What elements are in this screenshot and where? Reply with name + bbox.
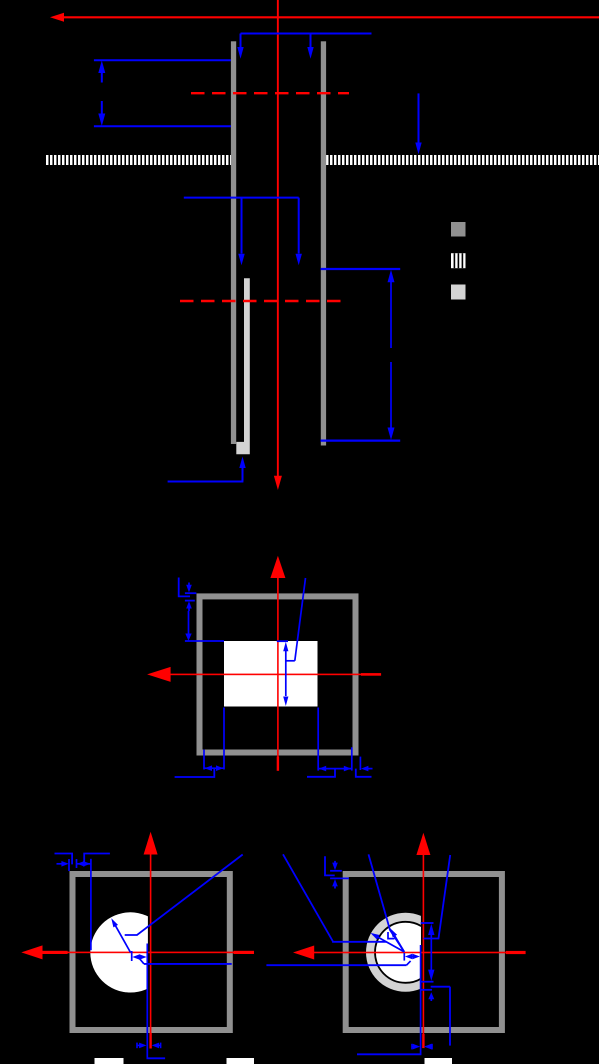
radius arrow to inner rim xyxy=(392,931,405,952)
vertical centerline (red) with top arrow xyxy=(144,832,158,855)
dim line tube top diameter xyxy=(241,33,372,35)
vertical centerline (red) xyxy=(277,0,279,476)
wall thickness dim top-left: outer tick xyxy=(185,592,196,594)
top-left: outer edge tick xyxy=(68,859,70,871)
up arrow below xyxy=(186,601,192,608)
dim inner-top to window-top xyxy=(188,611,190,636)
top-left wall thickness: outer tick xyxy=(330,870,342,872)
hook leader 2 xyxy=(84,854,110,865)
circle left edge tick (long) xyxy=(90,859,92,950)
extension from square inner-right edge xyxy=(351,747,353,770)
housing square (gray) xyxy=(346,874,502,1030)
down arrow above xyxy=(334,861,336,864)
bottom tick xyxy=(421,981,434,983)
roof pointer arrow xyxy=(418,93,420,143)
leader down-right xyxy=(356,769,372,777)
vertical dimension between levels: bottom arrow xyxy=(101,101,103,116)
horizontal centerline (red) with left arrow xyxy=(293,946,314,960)
leader from label to radius line xyxy=(125,855,243,936)
caption swatch white 1 xyxy=(95,1058,124,1064)
center tick xyxy=(403,953,405,961)
red dashed level line (lower) xyxy=(180,300,345,302)
hook at bottom to label (leftwards) xyxy=(357,1053,421,1055)
legend swatch gray xyxy=(451,222,466,237)
right depth dim: bottom extension line xyxy=(321,440,401,442)
L-leader down to label xyxy=(449,987,451,1046)
leader from height dim to label xyxy=(286,660,295,662)
right depth dim: top extension line xyxy=(321,268,401,270)
vertical dimension between levels: top arrow xyxy=(98,61,105,74)
right-angle mark xyxy=(388,932,395,939)
centerline bottom arrowhead xyxy=(274,476,282,490)
stem+arrow at x=298.7 xyxy=(298,198,300,254)
bottom-left dimension: extension from square inner edge xyxy=(203,750,205,770)
sensor tip pointer arrow xyxy=(239,457,245,469)
inner edge tick xyxy=(76,859,78,868)
bottom-right dimension: extension from window right edge xyxy=(317,708,319,771)
center tick xyxy=(131,951,133,961)
centerline thick end (bottom) xyxy=(277,757,279,771)
measuring plane line (blue vertical at flat edge) xyxy=(420,945,422,1055)
lower level line (left) xyxy=(94,125,231,127)
arrow pointing right at outer edge xyxy=(57,863,63,865)
leader down-left xyxy=(307,769,335,777)
bottom offset dimension: converging arrows xyxy=(136,1043,138,1049)
stem+arrow at x=310.5 xyxy=(310,34,312,48)
offset arrows (outward) xyxy=(132,954,139,960)
dim line with outward arrows xyxy=(204,767,224,769)
leader from left to annulus xyxy=(283,854,386,942)
horizontal centerline (red) with left arrow xyxy=(147,667,171,682)
inner tick xyxy=(330,877,349,879)
offset arrows (outward) xyxy=(405,954,412,960)
legend swatch light gray xyxy=(451,285,466,300)
wind direction arrowhead (left) xyxy=(50,13,64,22)
inner tick xyxy=(185,600,195,602)
window opening (white) xyxy=(224,641,318,707)
red dashed level line (upper) xyxy=(191,92,349,94)
ring thickness: tick outside xyxy=(431,986,450,988)
hook at bottom to label xyxy=(147,1057,166,1059)
radius arrow to outer rim xyxy=(373,934,405,952)
jog leader to the left xyxy=(407,961,411,965)
grommet ring (light gray, clipped flat on right) xyxy=(366,913,445,992)
leader down-left xyxy=(175,768,215,777)
mast tube right wall xyxy=(321,41,326,445)
vertical centerline (red) with top arrow xyxy=(416,833,430,855)
legend swatch hatched xyxy=(451,253,466,268)
vertical centerline (red) with top arrow xyxy=(270,556,285,578)
window top extension line xyxy=(185,640,224,642)
measuring plane line (blue vertical at flat edge) xyxy=(146,944,148,1058)
L-leader xyxy=(325,856,335,875)
mast tube left wall xyxy=(231,41,236,444)
housing square (gray) xyxy=(200,596,356,752)
up arrow below ring xyxy=(428,992,434,999)
hook leader 1 xyxy=(55,854,73,865)
dim shaft with outward arrows xyxy=(428,924,434,935)
port circle (white, clipped flat on right) xyxy=(90,912,170,992)
leader to measuring plane xyxy=(424,855,451,939)
inner diameter dim: top tick xyxy=(421,922,434,924)
down arrow above xyxy=(188,583,190,587)
stem+arrow at x=240.5 xyxy=(240,34,242,48)
bottom offset dimension: converging arrows xyxy=(411,1044,413,1050)
tick at window top over centerline xyxy=(277,640,288,642)
jog leader to the right xyxy=(139,958,144,964)
leader to ring center xyxy=(369,854,405,951)
centerline thick end (right) xyxy=(361,673,381,676)
roof slab hatched, right part xyxy=(326,155,599,165)
wind direction line (red, top) xyxy=(63,16,599,18)
upper level line (left) xyxy=(94,59,231,61)
dim line with outward arrows xyxy=(318,768,352,770)
caption swatch white 2 xyxy=(227,1058,255,1064)
stem+arrow at x=241.5 xyxy=(241,198,243,254)
roof slab hatched, left part xyxy=(46,155,231,165)
inner depth dim line xyxy=(184,197,299,199)
housing square (gray) xyxy=(73,874,230,1030)
dim line inner edge to circle edge, outward arrows xyxy=(77,863,91,865)
outer rim bottom tick xyxy=(421,989,432,991)
caption swatch white 3 xyxy=(425,1058,453,1064)
window height dimension (double arrow) xyxy=(283,642,288,652)
L-leader xyxy=(179,578,190,597)
right depth dimension arrows xyxy=(388,270,395,283)
left-pointing arrow with short dash xyxy=(361,766,368,772)
radius arrow to rim xyxy=(114,922,131,952)
up arrow below xyxy=(332,879,338,886)
extension from window left edge xyxy=(223,708,225,770)
horizontal centerline (red) with left arrow xyxy=(21,945,42,959)
inner sensor tube xyxy=(236,278,250,454)
right wall thickness: extension from outer edge xyxy=(359,757,361,770)
